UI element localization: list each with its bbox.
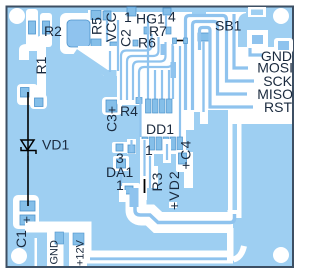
wire HG1 pin4 stub: [165, 15, 167, 27]
isolation channel R3: [140, 154, 154, 200]
resistor R5 pad bottom: [91, 39, 101, 49]
resistor R1 pad 2: [35, 98, 44, 107]
jumper wire near R3: [144, 179, 146, 193]
wire to DD1 pad 3: [161, 70, 163, 99]
blue pour block right of DD1 down to bottom: [186, 110, 228, 214]
isolation zone center stem: [117, 60, 229, 98]
SB1 loop rings merging into ISP traces: [186, 14, 263, 110]
wide trace segment: [171, 62, 177, 78]
jumper pad left: [173, 38, 177, 44]
pad above GND: [278, 41, 289, 50]
DA1 pad 2: [117, 159, 126, 168]
trace GND stub: [250, 47, 262, 55]
DA1 pad 3: [116, 144, 123, 151]
pad above GND clearance: [274, 38, 293, 53]
pad near DA1 pin3: [128, 145, 135, 153]
jumper pad right: [184, 38, 188, 44]
svg-text:GND: GND: [49, 240, 61, 265]
corner hole BR: [273, 247, 289, 263]
elbow trace bundle 3: [133, 42, 166, 100]
capacitor C4 clearance: [176, 150, 189, 172]
isolation channel right inner: [228, 112, 233, 216]
svg-text:SB1: SB1: [215, 18, 242, 34]
svg-text:+: +: [23, 212, 31, 227]
VCC pad bottom: [110, 42, 118, 51]
white area below VCC columns: [78, 46, 130, 76]
DD1 pad top 2: [153, 99, 159, 113]
ring 1 to RST: [200, 28, 254, 108]
isolation zone DD1 lower: [140, 124, 214, 154]
R6 pad: [133, 40, 138, 46]
elbow trace bundle 4: [139, 44, 173, 100]
SB1 center trace down: [202, 41, 204, 112]
DD1 pad bottom 3: [156, 137, 162, 150]
VCC pad top: [103, 11, 111, 20]
trace in bottom band: [90, 257, 230, 260]
wide trace into channel: [130, 188, 139, 207]
svg-text:C3+: C3+: [104, 106, 120, 132]
resistor R1 pad 1: [21, 88, 30, 98]
DD1 pad top 1: [146, 99, 152, 113]
svg-text:C1: C1: [13, 230, 29, 248]
elbow trace bundle 2: [127, 37, 159, 100]
capacitor C1 pad minus: [20, 201, 35, 211]
svg-text:R6: R6: [138, 35, 156, 51]
GND connector strip: [47, 228, 64, 266]
wire DA1 pin2 down: [120, 168, 122, 186]
svg-text:DD1: DD1: [146, 121, 174, 137]
pour block top-right with rounded corner: [238, 13, 292, 47]
DD1 pad bottom 5: [170, 137, 176, 150]
+12V connector strip: [69, 228, 87, 266]
DA1 clearance slot pin3: [127, 139, 136, 154]
pour corner restore: [78, 54, 104, 76]
svg-text:1: 1: [116, 177, 124, 193]
diode VD1 symbol: [21, 139, 36, 156]
isolation patch under R3: [148, 166, 158, 192]
HG1 pin4 pad: [163, 8, 171, 15]
isolation channel right outer: [237, 112, 242, 216]
bottom white band: [87, 251, 233, 264]
GND strip pad: [55, 232, 64, 244]
svg-text:4: 4: [168, 9, 176, 25]
capacitor C3 clearance: [102, 97, 122, 115]
svg-text:1: 1: [145, 142, 153, 158]
left arm down: [191, 62, 194, 110]
DA1 clearance patch bottom: [121, 183, 140, 200]
pour patch left of channel: [95, 188, 119, 201]
R2 clearance corner: [19, 44, 38, 60]
SB1 side pad clearance: [247, 30, 268, 48]
svg-text:R2: R2: [44, 23, 62, 39]
wide isolation channel with trace (DA1 to right channel): [136, 196, 233, 223]
resistor R1 clearance bar: [37, 36, 46, 98]
channel C1 to strips: [25, 222, 92, 233]
resistor R7 pad left: [144, 27, 149, 34]
diode VD2 clearance slot lower: [169, 199, 177, 208]
button SB1 top tab: [192, 8, 206, 14]
jumper wire after R6: [176, 40, 184, 42]
framed pad top right clearance: [248, 7, 266, 17]
wire R3 channel: [143, 140, 145, 176]
svg-text:+C4: +C4: [178, 139, 194, 169]
pour patch right of channel: [147, 188, 200, 202]
isolation edge left of channel: [119, 190, 126, 202]
traces top zone verticals: [107, 20, 173, 100]
big pad ring (relay contact): [60, 13, 97, 54]
R4 pads: [136, 98, 142, 104]
DA1 clearance patch middle: [113, 156, 129, 171]
trace C2 down: [117, 20, 119, 71]
wire to DD1 pad 4: [168, 70, 170, 99]
DA1 pad 1: [125, 186, 133, 194]
wire to VD2: [166, 144, 168, 160]
DD1 pad bottom 2: [149, 137, 155, 150]
wire to DD1 pad 2: [154, 70, 156, 99]
DD1 pad bottom 1: [142, 137, 148, 150]
svg-text:C2: C2: [118, 29, 134, 47]
C3 pad: [106, 100, 117, 112]
+12V strip pad: [73, 233, 84, 245]
power trace block (VCC): [104, 70, 117, 104]
svg-text:+VD2: +VD2: [166, 170, 182, 210]
wire in R3 channel: [149, 156, 151, 197]
svg-text:R4: R4: [120, 103, 138, 119]
resistor R2 clearance bar 1: [26, 9, 38, 47]
capacitor C1 clearance: [13, 195, 39, 229]
DD1 pad top 3: [160, 99, 166, 113]
pad segment on vertical: [161, 44, 166, 55]
corner hole TL: [9, 8, 25, 24]
elbow channel right of +12V strip: [85, 232, 92, 252]
ring exit channel top: [88, 10, 104, 20]
isolation zone top-center upper: [88, 12, 246, 50]
right end cap of bottom pour band: [227, 228, 234, 261]
trace inside channel: [135, 192, 235, 223]
ring exit channel bottom: [82, 46, 91, 64]
ring 3 to SCK: [186, 16, 255, 111]
svg-text:1: 1: [124, 9, 132, 25]
ring 2 to MISO: [193, 22, 248, 95]
isolation slot right of DA1: [140, 139, 149, 155]
wire DA1 pin3 up: [130, 140, 132, 152]
DD1 pad bottom 6: [177, 137, 183, 150]
wire right of DD1 pads: [172, 46, 174, 99]
R1 pad clearance left: [17, 84, 38, 105]
corner hole TR: [273, 8, 289, 24]
DD1 pad top 4: [167, 99, 173, 113]
resistor R2 clearance bar 2: [40, 13, 52, 47]
isolation channel right of C4: [184, 152, 193, 199]
resistor R7 pad right: [166, 27, 171, 34]
SB1 center pad: [198, 33, 209, 41]
R1 pad clearance right: [30, 94, 47, 109]
svg-text:VD1: VD1: [42, 137, 69, 153]
transistor DA1 clearance patch top: [112, 142, 129, 153]
isolation zone top-center lower: [102, 48, 246, 64]
diagonal neck trace pour to block: [75, 52, 106, 73]
svg-text:R3: R3: [149, 172, 165, 192]
DD1 pad bottom 4: [163, 137, 169, 150]
trace MOSI from pour: [234, 14, 248, 68]
SB1 side pad: [252, 35, 263, 44]
svg-text:+12V: +12V: [75, 239, 87, 266]
corner hole BL: [11, 248, 27, 264]
black overlay: wire from R1 to VD1: [27, 92, 29, 139]
capacitor C4 pad: [179, 153, 187, 164]
resistor R5 pad top: [91, 11, 101, 20]
isolation zone right labels: [228, 46, 292, 124]
framed pad top right center: [251, 10, 263, 16]
R4 clearance: [117, 96, 146, 105]
HG1 pin1 pad: [127, 7, 136, 16]
thin isolation line near BL: [35, 238, 38, 266]
elbow trace bundle 1: [121, 34, 152, 100]
capacitor C1 pad plus: [20, 215, 35, 225]
resistor R2 pad 1: [29, 21, 36, 34]
isolation zone DD1 upper: [140, 96, 228, 124]
wire down right side: [179, 46, 181, 137]
diode VD2 clearance slot: [163, 139, 171, 163]
wire HG1 pin1 to DD1: [147, 16, 149, 99]
svg-text:R1: R1: [33, 56, 49, 74]
wire DD1 row2 left: [139, 100, 141, 137]
wire VD1 to C1: [27, 156, 29, 206]
svg-text:RST: RST: [264, 99, 292, 115]
isolation channel below VD2: [152, 191, 193, 200]
resistor R2 pad 2: [43, 21, 50, 34]
trace VCC down: [106, 20, 108, 42]
